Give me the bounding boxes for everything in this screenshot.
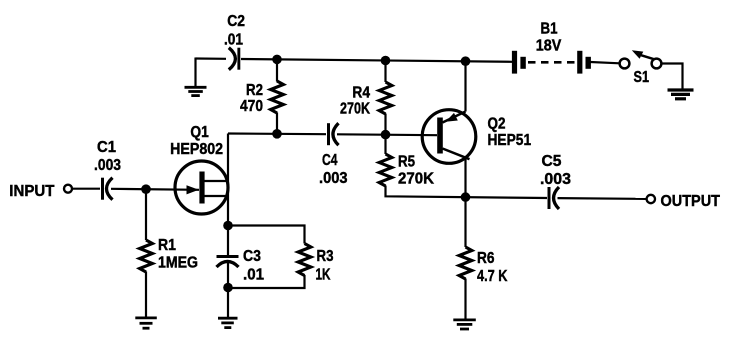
svg-text:C5: C5 [542,153,562,170]
svg-text:C1: C1 [97,139,116,156]
svg-text:C4: C4 [322,152,338,169]
svg-text:C3: C3 [243,248,261,265]
svg-text:Q1: Q1 [190,124,208,141]
svg-text:.003: .003 [319,170,348,187]
svg-text:B1: B1 [541,21,558,38]
svg-text:R5: R5 [398,154,415,171]
svg-text:R3: R3 [317,248,334,265]
svg-text:R6: R6 [477,250,495,267]
svg-text:S1: S1 [634,69,650,86]
svg-text:.003: .003 [94,157,121,174]
svg-text:270K: 270K [340,101,370,118]
svg-text:INPUT: INPUT [9,183,54,200]
svg-text:1K: 1K [316,267,331,284]
svg-text:.01: .01 [224,32,243,49]
svg-text:270K: 270K [398,171,434,188]
svg-text:HEP51: HEP51 [488,132,532,149]
svg-text:Q2: Q2 [488,116,506,133]
svg-text:R4: R4 [352,85,370,102]
svg-text:18V: 18V [536,38,562,55]
svg-text:R2: R2 [246,82,263,99]
svg-text:4.7 K: 4.7 K [477,268,508,285]
svg-text:R1: R1 [158,237,176,254]
svg-text:HEP802: HEP802 [170,141,223,158]
svg-text:OUTPUT: OUTPUT [661,193,721,210]
svg-text:C2: C2 [227,13,245,30]
svg-text:470: 470 [240,98,263,115]
svg-text:.01: .01 [243,267,264,284]
svg-text:.003: .003 [540,171,571,188]
svg-text:1MEG: 1MEG [158,254,198,271]
